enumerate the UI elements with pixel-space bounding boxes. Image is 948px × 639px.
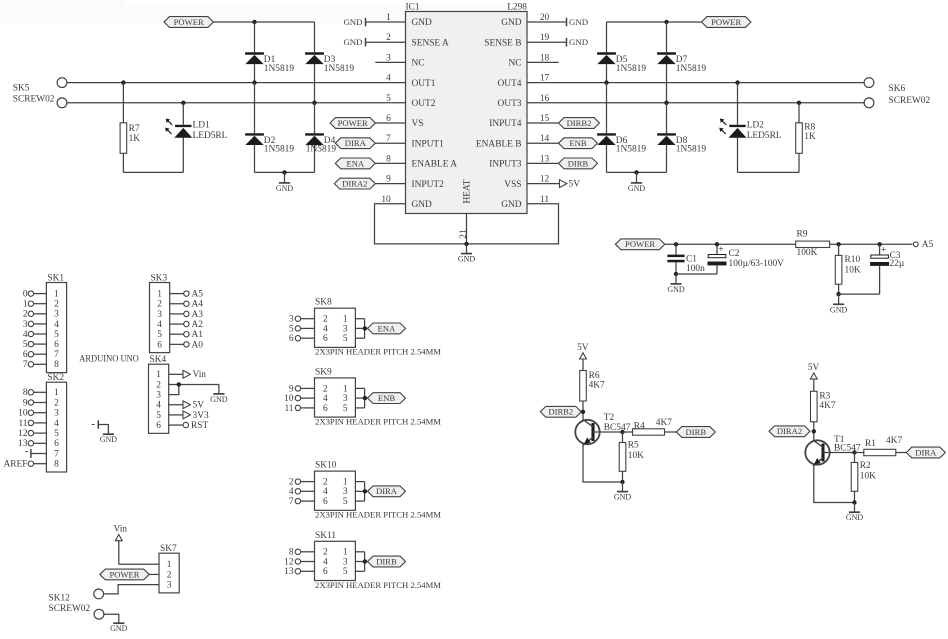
svg-text:+: + [881,244,886,255]
supply 5V at IC1 pin 12 [527,175,580,190]
svg-text:GND: GND [846,513,864,522]
svg-text:IC1: IC1 [406,2,420,12]
IC1 pin names [412,18,522,210]
svg-text:6: 6 [157,340,162,350]
svg-text:POWER: POWER [109,569,139,579]
wire R7-LD1 bottom [123,171,183,173]
svg-text:3: 3 [289,315,294,325]
svg-text:R3: R3 [819,391,830,401]
wire OUT4 net [527,74,864,84]
svg-text:5: 5 [386,94,391,104]
connector SK11 2x3 header [315,531,356,581]
svg-text:4: 4 [323,557,328,567]
diode D6 1N5819 [597,83,646,173]
svg-text:13: 13 [540,154,550,164]
svg-text:1N5819: 1N5819 [676,64,707,74]
svg-text:4: 4 [323,487,328,497]
svg-text:100K: 100K [797,248,818,258]
junction T1 gnd node [852,500,856,504]
svg-text:Vin: Vin [114,525,128,535]
svg-text:GND: GND [628,184,646,193]
svg-text:ENA: ENA [346,158,364,168]
svg-text:8: 8 [54,460,59,470]
transistor T2 BC547 [575,413,630,445]
supply 5V at R6 [577,343,589,371]
svg-text:R8: R8 [804,123,815,133]
svg-text:3: 3 [343,487,348,497]
svg-text:ENB: ENB [378,393,395,403]
LED LD1 LED5RL [165,103,228,173]
svg-text:ENABLE A: ENABLE A [412,160,458,170]
svg-text:BC547: BC547 [604,423,631,433]
IC1 pin 18 stub NC [527,53,559,63]
junction gnd rail right [634,170,638,174]
ground GND right bridge [628,172,646,193]
svg-text:6: 6 [323,497,328,507]
SK8 right pin wires [355,319,367,339]
svg-text:A1: A1 [192,330,204,340]
junction D7-D8 on OUT3 [664,101,668,105]
supply 5V at R3 [808,363,820,391]
svg-text:2: 2 [323,548,328,558]
junction D1-D2 on OUT1 [252,80,256,84]
connector SK8 2x3 header [315,298,356,348]
flag POWER filter [615,239,664,250]
junction R8 on OUT3 [797,101,801,105]
resistor R3 4K7 [811,391,836,440]
svg-text:1: 1 [54,388,59,398]
ground GND under IC1 [458,244,476,264]
ground GND left bridge [276,172,294,193]
svg-text:DIRB: DIRB [686,427,707,437]
svg-text:5: 5 [54,429,59,439]
wire power rail left [213,21,314,23]
wire SK7 pin 3 to SK12 [104,585,159,594]
svg-text:5: 5 [343,497,348,507]
svg-text:OUT3: OUT3 [498,99,522,109]
svg-text:5V: 5V [569,180,581,190]
svg-text:2: 2 [156,380,161,390]
svg-text:A4: A4 [192,300,204,310]
resistor R10 10K [835,244,861,294]
svg-text:10K: 10K [845,266,861,276]
junction LD1 on OUT2 [181,101,185,105]
svg-text:4K7: 4K7 [589,380,605,390]
svg-text:SK10: SK10 [315,461,337,471]
svg-text:4: 4 [156,401,161,411]
svg-text:SK6: SK6 [889,84,906,94]
svg-text:1: 1 [343,315,348,325]
svg-text:C2: C2 [729,249,740,259]
junction R10 top [836,242,840,246]
ground GND at SK4 [210,384,228,403]
svg-text:R6: R6 [589,371,600,381]
svg-text:4: 4 [323,324,328,334]
svg-text:R9: R9 [797,230,808,240]
svg-text:GND: GND [501,200,522,210]
flag DIRB at SK11 [368,556,406,567]
svg-text:HEAT: HEAT [463,179,473,203]
svg-text:R2: R2 [860,461,871,471]
svg-text:7: 7 [386,134,391,144]
junction SK9 flag [363,396,367,400]
svg-text:4: 4 [157,320,162,330]
svg-text:2: 2 [167,570,172,580]
flag DIRB at T2 [676,427,715,438]
svg-text:SCREW02: SCREW02 [49,604,91,614]
flag DIRA at T1 [906,447,945,458]
svg-text:A0: A0 [192,340,204,350]
junction T1 base node [852,450,856,454]
SK9 left terminals [284,384,314,414]
svg-text:5: 5 [289,324,294,334]
supply 3V3 at SK4 pin 5 [169,411,209,421]
svg-text:2X3PIN HEADER PITCH 2.54MM: 2X3PIN HEADER PITCH 2.54MM [315,510,441,520]
svg-text:GND: GND [412,18,433,28]
svg-text:+: + [718,244,723,255]
svg-text:1N5819: 1N5819 [264,64,295,74]
SK10 right pin wires [355,482,367,502]
svg-text:1N5819: 1N5819 [616,64,647,74]
ground GND at T2 [614,482,632,502]
svg-text:SCREW02: SCREW02 [889,96,931,106]
svg-text:1N5819: 1N5819 [324,64,355,74]
svg-text:A3: A3 [192,310,204,320]
junction SK10 flag [363,489,367,493]
junction D1 top [252,20,256,24]
svg-text:GND: GND [110,624,128,633]
LED LD2 LED5RL [719,83,782,173]
svg-text:2: 2 [54,300,59,310]
svg-text:1: 1 [343,384,348,394]
connector SK3 [150,273,170,352]
svg-text:22µ: 22µ [890,259,905,269]
svg-text:SK9: SK9 [315,367,332,377]
svg-text:12: 12 [540,175,550,185]
svg-text:5V: 5V [808,363,820,373]
connector SK6 SCREW02 [864,78,930,108]
flag POWER at IC1 pin 6 [330,114,406,128]
svg-text:2X3PIN HEADER PITCH 2.54MM: 2X3PIN HEADER PITCH 2.54MM [315,347,441,357]
svg-text:GND: GND [667,285,685,294]
flag DIRA2 at IC1 pin 9 [334,175,405,189]
svg-text:INPUT1: INPUT1 [412,139,445,149]
SK9 right pin wires [355,388,367,408]
svg-text:8: 8 [23,388,28,398]
svg-text:2X3PIN HEADER PITCH 2.54MM: 2X3PIN HEADER PITCH 2.54MM [315,580,441,590]
svg-text:OUT2: OUT2 [412,99,436,109]
flag POWER top-right [702,17,751,28]
junction D7 top [664,20,668,24]
svg-text:6: 6 [323,404,328,414]
SK10 left terminals [289,478,315,508]
svg-text:3: 3 [386,53,391,63]
flag DIRA at IC1 pin 7 [335,134,405,148]
node AREF terminal [4,460,47,470]
svg-text:1: 1 [343,548,348,558]
svg-text:DIRA: DIRA [345,138,367,148]
svg-text:POWER: POWER [625,239,655,249]
svg-text:SK8: SK8 [315,298,332,308]
svg-text:SK3: SK3 [151,273,168,283]
svg-text:T2: T2 [604,413,615,423]
svg-text:A2: A2 [192,320,204,330]
flag ENB at SK9 [368,393,406,404]
svg-text:18: 18 [540,53,550,63]
wire gnd rail left bridge [255,171,315,173]
svg-text:POWER: POWER [711,17,741,27]
node RST at SK4 pin 6 [169,421,209,431]
flag DIRA at SK10 [368,486,406,497]
svg-text:VS: VS [412,119,424,129]
connector SK12 SCREW02 [49,589,104,619]
svg-text:100µ/63-100V: 100µ/63-100V [729,259,785,269]
svg-text:1: 1 [23,300,28,310]
svg-text:2: 2 [289,478,294,488]
svg-text:SK5: SK5 [13,83,30,93]
svg-text:10: 10 [284,394,294,404]
svg-text:6: 6 [54,439,59,449]
svg-text:8: 8 [289,548,294,558]
junction under IC1 [464,242,468,246]
junction R10 bottom [836,292,840,296]
capacitor C2 100u [676,244,784,274]
capacitor C3 22u [839,244,905,294]
junction SK8 flag [363,326,367,330]
svg-text:BC547: BC547 [834,443,861,453]
svg-text:3V3: 3V3 [193,411,209,421]
svg-text:6: 6 [54,340,59,350]
flag POWER top-left [164,17,213,28]
wire T1 base [823,452,855,454]
junction DIRA2 node [812,429,816,433]
svg-text:DIRA: DIRA [376,486,398,496]
flag POWER at SK7 pin 2 [100,569,159,580]
svg-text:Vin: Vin [193,370,207,380]
svg-text:3: 3 [157,310,162,320]
diode D3 1N5819 [305,22,354,103]
svg-text:1K: 1K [129,134,141,144]
svg-text:8: 8 [386,154,391,164]
svg-text:3: 3 [156,391,161,401]
svg-text:100n: 100n [686,264,705,274]
SK11 left terminals [284,548,314,578]
svg-text:5: 5 [343,404,348,414]
svg-text:2: 2 [23,310,28,320]
svg-text:6: 6 [289,334,294,344]
svg-text:ENA: ENA [378,323,396,333]
svg-text:NC: NC [412,59,425,69]
svg-text:1N5819: 1N5819 [676,145,707,155]
svg-text:GND: GND [343,37,362,47]
IC1 pin 20 stub [527,13,567,23]
svg-text:INPUT4: INPUT4 [489,119,522,129]
svg-text:5: 5 [54,330,59,340]
svg-text:ENB: ENB [569,138,586,148]
ground pin standalone [92,420,117,444]
svg-text:7: 7 [289,497,294,507]
IC1 pin 2 stub [366,33,406,43]
svg-text:10: 10 [381,195,391,205]
node A5 terminal [913,240,933,250]
connector SK2 [46,373,66,472]
resistor R7 1K [120,83,140,173]
wire R9 to A5 [830,243,913,245]
svg-text:OUT4: OUT4 [498,79,522,89]
svg-text:20: 20 [540,13,550,23]
svg-text:13: 13 [18,439,28,449]
svg-text:SK7: SK7 [160,544,177,554]
svg-text:3: 3 [23,320,28,330]
wire OUT1 net [67,74,405,84]
svg-text:DIRB2: DIRB2 [548,407,573,417]
junction C1-C2 bottom [674,272,678,276]
svg-text:SENSE A: SENSE A [412,38,449,48]
svg-text:5: 5 [156,411,161,421]
svg-text:2: 2 [323,478,328,488]
svg-text:1: 1 [167,560,172,570]
svg-text:1K: 1K [804,132,816,142]
ground GND under R10 [830,294,848,314]
wire T2 base [593,431,623,433]
wire OUT3 net [527,94,864,104]
diode D7 1N5819 [657,22,706,103]
svg-text:21: 21 [459,229,469,239]
svg-text:DIRB2: DIRB2 [567,118,592,128]
svg-text:6: 6 [156,421,161,431]
junction D3-D4 on OUT2 [312,101,316,105]
svg-text:9: 9 [386,175,391,185]
svg-text:16: 16 [540,94,550,104]
svg-text:DIRA2: DIRA2 [342,179,367,189]
svg-text:LD2: LD2 [747,121,764,131]
wire OUT2 net [67,94,405,104]
SK1 pins 0-7 terminals [23,290,47,371]
svg-text:3: 3 [54,310,59,320]
SK3 pins A5-A0 terminals [170,290,204,351]
junction LD2 on OUT4 [735,80,739,84]
svg-text:5V: 5V [577,343,589,353]
svg-text:POWER: POWER [174,17,204,27]
flag DIRB at IC1 pin 13 [527,154,598,168]
junction SK11 flag [363,559,367,563]
connector SK9 2x3 header [315,367,356,417]
svg-text:4: 4 [289,487,294,497]
svg-text:3: 3 [343,557,348,567]
IC1 pin 1 stub [366,13,406,23]
svg-text:GND: GND [100,435,118,444]
svg-text:12: 12 [284,557,294,567]
junction SK4 pin 2 [177,382,181,386]
flag ENB at IC1 pin 14 [527,134,598,148]
ground GND at IC1 pin 20 [567,17,589,27]
svg-text:17: 17 [540,74,550,84]
svg-text:2X3PIN HEADER PITCH 2.54MM: 2X3PIN HEADER PITCH 2.54MM [315,416,441,426]
diode D8 1N5819 [657,103,706,173]
ground GND at IC1 pin 2 [343,37,365,47]
wire power rail right [607,21,702,23]
connector SK5 SCREW02 [13,78,67,108]
resistor R4 4K7 [623,418,677,435]
svg-text:POWER: POWER [338,118,368,128]
SK11 right pin wires [355,552,367,572]
svg-text:SK1: SK1 [47,273,64,283]
ground GND under C1 [667,274,685,294]
junction C2 top [715,242,719,246]
svg-text:ENABLE B: ENABLE B [476,139,522,149]
svg-text:DIRA: DIRA [915,447,937,457]
svg-text:2: 2 [323,384,328,394]
svg-text:A5: A5 [922,240,934,250]
svg-text:11: 11 [540,195,549,205]
svg-text:3: 3 [54,409,59,419]
svg-text:R5: R5 [628,441,639,451]
svg-text:GND: GND [569,37,588,47]
ground tick SK2 pin 7 [25,449,46,458]
svg-text:RST: RST [191,421,208,431]
flag DIRB2 at T2 [540,406,581,417]
junction DIRB2 node [581,410,585,414]
svg-text:LED5RL: LED5RL [193,131,228,141]
svg-text:11: 11 [284,404,293,414]
svg-text:SCREW02: SCREW02 [13,95,55,105]
svg-text:SENSE B: SENSE B [484,38,521,48]
wire IC1 pin 11 GND to bottom rail [467,195,559,244]
svg-text:1: 1 [156,370,161,380]
svg-text:3: 3 [343,324,348,334]
connector SK7 [159,544,179,593]
svg-text:12: 12 [18,429,28,439]
svg-text:SK11: SK11 [315,531,336,541]
wire IC1 pin 10 GND to bottom rail [375,195,467,244]
svg-text:2: 2 [157,300,162,310]
svg-text:C1: C1 [686,254,697,264]
svg-text:6: 6 [323,334,328,344]
svg-text:8: 8 [54,360,59,370]
IC1 pin 3 stub NC [375,53,405,63]
svg-text:GND: GND [210,395,228,404]
svg-text:2: 2 [323,315,328,325]
resistor R5 10K [619,432,644,482]
svg-text:19: 19 [540,33,550,43]
svg-text:1: 1 [343,478,348,488]
svg-text:GND: GND [614,493,632,502]
svg-text:1: 1 [157,290,162,300]
svg-text:INPUT3: INPUT3 [489,160,522,170]
diode D1 1N5819 [245,22,294,83]
svg-text:4: 4 [54,419,59,429]
svg-text:R4: R4 [634,421,645,431]
capacitor C1 100n [667,244,705,274]
flag ENA at IC1 pin 8 [335,154,405,168]
svg-text:L298: L298 [507,2,527,12]
svg-text:SK4: SK4 [150,355,167,365]
svg-text:10K: 10K [860,472,876,482]
svg-text:13: 13 [284,567,294,577]
svg-text:1N5819: 1N5819 [264,145,295,155]
transistor T1 BC547 [805,435,861,466]
svg-text:1N5819: 1N5819 [616,145,647,155]
svg-text:9: 9 [23,398,28,408]
junction C1 top [674,242,678,246]
junction C3 top [877,242,881,246]
svg-text:2: 2 [54,398,59,408]
junction T2 base node [620,430,624,434]
svg-text:7: 7 [54,350,59,360]
svg-text:AREF: AREF [4,460,28,470]
connector SK10 2x3 header [315,461,356,511]
SK2 pins 8-13 terminals [18,388,46,449]
